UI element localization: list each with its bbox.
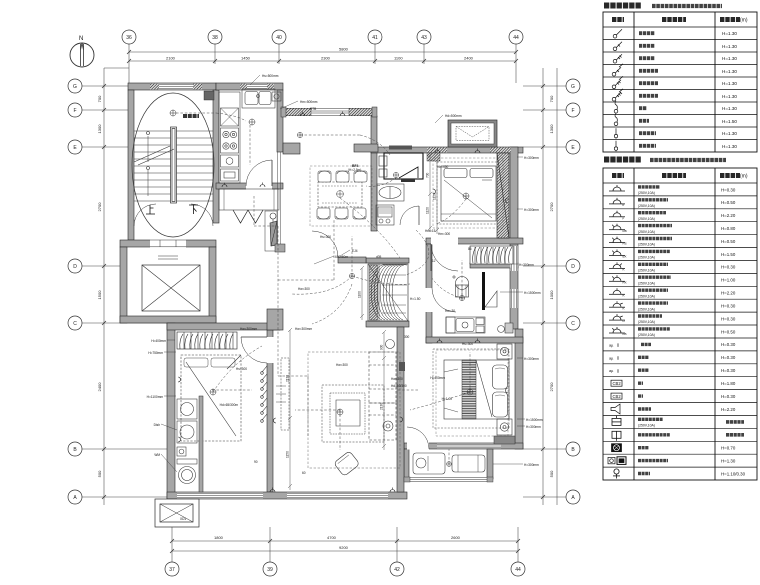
svg-text:500: 500 <box>97 470 102 477</box>
svg-text:H=1.50: H=1.50 <box>410 297 421 301</box>
ceiling lamp bath2 <box>459 295 464 300</box>
legend2 row 10 <box>609 301 625 307</box>
legend2 title <box>604 157 641 163</box>
legend1 row 1 <box>613 29 622 38</box>
svg-text:H=1.30: H=1.30 <box>722 44 737 49</box>
legend2 row 19 <box>612 416 621 426</box>
wall stair-kitchen divider <box>213 90 219 223</box>
bottom dimension lines <box>172 527 518 562</box>
svg-text:1120: 1120 <box>433 193 437 200</box>
legend1 row 10 <box>614 141 617 151</box>
svg-text:39: 39 <box>267 567 273 573</box>
svg-text:42: 42 <box>394 567 400 573</box>
master bed <box>433 344 512 435</box>
kitchen counter <box>219 89 281 183</box>
wall right outer upper <box>510 147 518 329</box>
door arc hall-dining <box>312 231 338 257</box>
svg-text:2400: 2400 <box>97 382 102 392</box>
svg-text:RX: RX <box>623 280 627 284</box>
svg-text:41: 41 <box>372 35 378 41</box>
svg-text:1500: 1500 <box>97 290 102 300</box>
svg-text:H=1.00: H=1.00 <box>442 397 453 401</box>
wall bedroom2 bottom <box>426 238 523 244</box>
legend1 row 6 <box>612 89 623 101</box>
svg-text:(250V,10A): (250V,10A) <box>638 333 655 337</box>
svg-text:Hs=300: Hs=300 <box>236 367 247 371</box>
svg-text:Hs=300: Hs=300 <box>320 235 331 239</box>
legend2 row 3 <box>609 211 625 217</box>
svg-text:(250V,10A): (250V,10A) <box>638 307 655 311</box>
svg-text:2400: 2400 <box>464 56 474 61</box>
living coffee table <box>336 400 360 426</box>
right dimension lines <box>523 68 566 505</box>
master nightstands <box>497 344 512 359</box>
svg-text:H=1.10/0.30: H=1.10/0.30 <box>721 471 746 476</box>
interior dim chain hall <box>288 328 292 490</box>
bottom grid bubbles <box>165 562 525 576</box>
svg-text:36: 36 <box>126 35 132 41</box>
glyph up <box>146 205 155 214</box>
legend table 2 electrical <box>603 160 757 481</box>
window hatch bedroom2 top wall <box>427 148 447 153</box>
ceiling lamp kitchen <box>249 119 255 125</box>
legend2 row 8 <box>609 275 625 281</box>
svg-text:KB: KB <box>623 332 627 336</box>
svg-text:H=1.30: H=1.30 <box>722 94 737 99</box>
svg-text:G: G <box>571 84 575 90</box>
svg-text:Hm=300: Hm=300 <box>438 232 450 236</box>
stair center rail <box>171 127 177 203</box>
svg-text:500: 500 <box>549 470 554 477</box>
legend1 row 2 <box>613 42 622 51</box>
svg-text:1300: 1300 <box>97 124 102 134</box>
svg-text:H=0.30: H=0.30 <box>721 394 736 399</box>
svg-text:(250V,10A): (250V,10A) <box>638 230 655 234</box>
ceiling lamp bedroom3 <box>210 389 216 395</box>
svg-text:Hw=30: Hw=30 <box>445 309 455 313</box>
svg-text:900: 900 <box>380 344 384 350</box>
ceiling lamp bedroom2 <box>463 193 469 199</box>
top grid bubbles <box>122 30 523 44</box>
svg-text:4700: 4700 <box>327 535 337 540</box>
wall elevator right <box>209 247 216 323</box>
ceiling lamp stair <box>170 110 176 116</box>
living wall panel <box>399 362 405 371</box>
bath1 shower room <box>384 153 423 179</box>
svg-text:H=0.70: H=0.70 <box>721 446 736 451</box>
svg-text:C: C <box>571 321 575 327</box>
living tv cabinet <box>281 358 289 430</box>
legend table 1 switches <box>603 6 757 153</box>
right grid bubbles <box>566 79 580 504</box>
wall top right horizontal <box>371 147 523 153</box>
svg-text:H=1100mm: H=1100mm <box>147 395 164 399</box>
door gap bedroom3 <box>267 337 274 363</box>
legend1 row 4 <box>612 64 623 76</box>
bath3 washbasin <box>177 421 197 443</box>
master dresser <box>494 436 515 444</box>
svg-text:BX: BX <box>623 255 627 259</box>
svg-text:2700: 2700 <box>97 202 102 212</box>
living side table top <box>386 340 395 349</box>
svg-text:H=0.30: H=0.30 <box>721 355 736 360</box>
svg-text:H=0.80: H=0.80 <box>721 226 736 231</box>
wall bath2 bottom / master top <box>426 337 523 343</box>
svg-text:H=1.30: H=1.30 <box>721 458 736 463</box>
svg-text:Hw=300mm: Hw=300mm <box>240 327 257 331</box>
bedroom3 wardrobe <box>177 332 237 349</box>
svg-text:G: G <box>73 84 77 90</box>
svg-text:H=2.20: H=2.20 <box>721 291 736 296</box>
living rug <box>322 385 384 442</box>
svg-text:(H=2.5m): (H=2.5m) <box>348 168 361 172</box>
svg-text:H=300mm: H=300mm <box>524 208 539 212</box>
svg-text:(250V,10A): (250V,10A) <box>638 320 655 324</box>
legend2 row 12 <box>609 327 625 333</box>
svg-text:H=1.50: H=1.50 <box>721 252 736 257</box>
wall balcony right <box>487 449 493 479</box>
entry side wall lines <box>278 152 281 244</box>
wall kitchen right <box>277 90 283 152</box>
svg-text:5800: 5800 <box>339 47 349 52</box>
leader labels top area <box>262 74 462 233</box>
svg-text:Hw=300mm: Hw=300mm <box>295 327 312 331</box>
svg-text:H=1.30: H=1.30 <box>722 144 737 149</box>
corridor window wall <box>281 107 377 117</box>
window bottom wall at A <box>177 493 388 499</box>
svg-text:H=0.30: H=0.30 <box>721 187 736 192</box>
window master bottom <box>437 444 501 449</box>
svg-text:1000: 1000 <box>549 290 554 300</box>
legend2 row 20 <box>612 431 621 441</box>
svg-text:H=0.50: H=0.50 <box>721 200 736 205</box>
socket symbols along walls <box>178 112 508 493</box>
legend1 frame <box>603 12 757 152</box>
svg-text:H=300mm: H=300mm <box>524 357 539 361</box>
bath1 door arc <box>400 206 419 225</box>
svg-text:1150: 1150 <box>286 451 290 458</box>
wall balcony left <box>404 449 409 478</box>
svg-text:2700: 2700 <box>549 202 554 212</box>
legend1 row 5 <box>612 76 623 88</box>
svg-text:(250V,10A): (250V,10A) <box>638 191 655 195</box>
svg-text:2700: 2700 <box>549 382 554 392</box>
kitchen fridge <box>221 108 239 126</box>
svg-text:CB2: CB2 <box>613 381 622 386</box>
window right wall upper <box>511 246 518 308</box>
legend2 frame <box>603 168 757 480</box>
svg-text:H=0.50: H=0.50 <box>721 329 736 334</box>
door gap elevator <box>150 240 186 248</box>
wall entry closet bottom <box>366 321 409 327</box>
stair break line <box>134 132 174 197</box>
svg-text:Hm=500mm: Hm=500mm <box>300 100 318 104</box>
entry closet interior <box>368 264 408 321</box>
kitchen sink <box>242 89 275 108</box>
legend2 row 9 <box>609 288 625 294</box>
legend1 row 9 <box>614 128 617 139</box>
bedroom2 corner hatch <box>427 153 440 161</box>
svg-text:D: D <box>73 264 77 270</box>
svg-text:Hs=500mm: Hs=500mm <box>262 74 279 78</box>
svg-text:H=300mm: H=300mm <box>519 263 534 267</box>
svg-text:Dish: Dish <box>154 423 161 427</box>
entry door leaf <box>265 211 277 251</box>
svg-text:H=300mm: H=300mm <box>524 463 539 467</box>
wall master right outer <box>515 329 523 449</box>
svg-text:H=400mm: H=400mm <box>151 339 166 343</box>
svg-text:H=1.80: H=1.80 <box>721 381 736 386</box>
legend2 row 7 <box>609 262 625 268</box>
svg-text:Hd=65/300m: Hd=65/300m <box>220 403 239 407</box>
svg-text:H=1500mm: H=1500mm <box>526 418 543 422</box>
duct block stair top <box>204 91 214 100</box>
label EJ leader <box>314 250 350 264</box>
dining dashed ceiling <box>310 166 372 226</box>
interior dim chain bedroom2 <box>435 158 439 234</box>
leader labels right side <box>430 156 543 467</box>
wall bedroom3 top <box>167 323 280 330</box>
svg-text:37: 37 <box>169 567 175 573</box>
svg-text:300: 300 <box>404 335 410 339</box>
legend2 row 23 <box>613 469 620 479</box>
bedroom2 closet hatch <box>470 246 513 264</box>
svg-text:H=1.30: H=1.30 <box>722 69 737 74</box>
wall stair top <box>128 83 216 90</box>
bath1 washbasin <box>376 184 404 225</box>
stair treads <box>134 131 213 201</box>
svg-text:60: 60 <box>302 471 306 475</box>
svg-text:Hw=300: Hw=300 <box>391 377 403 381</box>
window gap stair top <box>150 84 202 90</box>
bath2 stall toilet <box>446 317 513 333</box>
svg-text:d05: d05 <box>376 255 382 259</box>
living sofa dashed <box>369 352 396 440</box>
legend2 row 17 <box>611 393 622 399</box>
legend1 row 8 <box>614 113 618 125</box>
svg-text:1450: 1450 <box>241 56 251 61</box>
wiring dashed trunks <box>176 113 470 450</box>
bath1 washer <box>376 205 394 225</box>
legend2 row 11 <box>609 314 625 320</box>
ceiling lamp master <box>467 389 473 395</box>
top dimension lines <box>129 44 516 83</box>
svg-text:F: F <box>73 108 76 114</box>
svg-text:2130: 2130 <box>286 375 290 382</box>
bath3 toilet <box>177 459 197 464</box>
svg-text:D: D <box>571 264 575 270</box>
wall elevator left <box>120 247 127 323</box>
stair oval wall <box>132 93 214 237</box>
ceiling lamp bath1 <box>393 172 398 177</box>
label pavilae <box>183 114 199 118</box>
svg-text:9200: 9200 <box>339 545 349 550</box>
wall entry closet top <box>366 258 409 263</box>
bath2 washbasin counter <box>446 317 485 333</box>
svg-text:1120: 1120 <box>426 207 430 214</box>
svg-text:H=2.20: H=2.20 <box>721 407 736 412</box>
glyph down <box>189 205 198 214</box>
svg-text:(250V,10A): (250V,10A) <box>638 217 655 221</box>
svg-text:H=2.20: H=2.20 <box>721 213 736 218</box>
bedroom2 wardrobe <box>497 153 509 238</box>
svg-text:1800: 1800 <box>214 535 224 540</box>
left grid bubbles <box>68 79 82 504</box>
svg-text:Hd=60/300: Hd=60/300 <box>391 384 407 388</box>
bedroom2 bed <box>437 162 500 224</box>
svg-text:H=1.50: H=1.50 <box>722 119 737 124</box>
kitchen stove <box>221 128 239 153</box>
svg-text:Hd=500mm: Hd=500mm <box>445 114 462 118</box>
interior dim chain bath1 <box>428 153 432 232</box>
svg-text:H=1.30: H=1.30 <box>722 56 737 61</box>
wall stub right of kitchen <box>283 143 300 154</box>
svg-text:RB: RB <box>623 229 627 233</box>
legend2 row 1 <box>609 185 625 191</box>
svg-text:H=300mm: H=300mm <box>524 156 539 160</box>
legend2 row 22 <box>608 457 626 465</box>
svg-text:(250V,10A): (250V,10A) <box>638 281 655 285</box>
bath3 divider <box>199 396 203 492</box>
balcony railing <box>404 477 493 482</box>
wall bottom at grid A <box>167 492 407 499</box>
svg-text:K: K <box>623 293 625 297</box>
door gap bath2 <box>426 288 433 312</box>
legend1 row 7 <box>614 101 618 113</box>
svg-text:H=0.30: H=0.30 <box>721 342 736 347</box>
dining chairs <box>317 171 367 219</box>
ceiling lamp balcony <box>447 462 452 467</box>
wall kitchen top <box>216 83 283 90</box>
leader labels left side <box>147 339 167 457</box>
legend2 row 5 <box>609 237 625 243</box>
door gap bedroom2 <box>431 238 458 245</box>
svg-text:650x50m: 650x50m <box>335 255 348 259</box>
svg-text:H=0.50: H=0.50 <box>721 239 736 244</box>
svg-text:700: 700 <box>97 95 102 102</box>
legend2 row 18 <box>611 404 620 414</box>
legend1 title <box>604 3 641 9</box>
legend2 row 6 <box>609 250 625 256</box>
entry closet folding doors <box>233 210 263 223</box>
svg-text:K: K <box>623 268 625 272</box>
door gap kitchen bottom <box>246 183 272 190</box>
svg-text:H=1.30: H=1.30 <box>722 131 737 136</box>
dining ceiling fan <box>337 191 344 198</box>
ceiling lamp corridor <box>297 132 302 137</box>
legend1 header <box>612 17 624 22</box>
kitchen door arc <box>246 160 272 186</box>
svg-text:38: 38 <box>212 35 218 41</box>
svg-text:STB: STB <box>310 107 316 111</box>
svg-text:K: K <box>623 306 625 310</box>
svg-text:(m): (m) <box>740 18 748 24</box>
svg-text:Hw=300: Hw=300 <box>298 287 310 291</box>
wall elevator top <box>120 240 216 247</box>
entry cabinet <box>219 189 279 210</box>
svg-text:44: 44 <box>515 567 521 573</box>
legend1 row 3 <box>613 54 622 63</box>
legend2 header <box>612 173 624 178</box>
svg-text:43: 43 <box>421 35 427 41</box>
master dashed ceiling <box>436 350 508 436</box>
bedroom2 dashed ceiling <box>433 158 503 228</box>
svg-text:(250V,10A): (250V,10A) <box>638 204 655 208</box>
bath2 stall partition <box>482 272 485 310</box>
north arrow <box>70 43 94 67</box>
wall left outer lower <box>167 323 175 499</box>
svg-text:H=1.30: H=1.30 <box>722 31 737 36</box>
balcony loungers <box>413 453 485 474</box>
AC platform <box>448 120 497 147</box>
svg-text:H=300mm: H=300mm <box>526 425 541 429</box>
bath2 stall door wedge <box>485 291 497 307</box>
bath2 water heater <box>452 275 469 297</box>
bath1 small box left <box>379 156 387 166</box>
bath1 divider shelf <box>401 179 415 182</box>
svg-text:2600: 2600 <box>451 535 461 540</box>
svg-text:2130: 2130 <box>380 403 384 410</box>
svg-text:H=1500mm: H=1500mm <box>524 291 541 295</box>
svg-text:700: 700 <box>549 95 554 102</box>
svg-text:40: 40 <box>276 35 282 41</box>
wall stub left of corridor vertical <box>354 144 378 152</box>
shaft bottom-left <box>155 499 199 527</box>
wall master bottom <box>404 443 523 449</box>
svg-text:1300: 1300 <box>549 124 554 134</box>
svg-text:(250V,10A): (250V,10A) <box>638 256 655 260</box>
svg-text:(250V,10A): (250V,10A) <box>638 243 655 247</box>
svg-text:H=750mm: H=750mm <box>148 351 163 355</box>
window gap kitchen top <box>240 84 274 90</box>
bath1 shower window band <box>389 146 412 150</box>
left dimension line <box>82 68 167 505</box>
svg-text:700: 700 <box>426 172 430 178</box>
switch cluster hallway <box>261 366 286 422</box>
svg-text:H=1.00: H=1.00 <box>721 278 736 283</box>
svg-text:H=0.30: H=0.30 <box>721 304 736 309</box>
door gap balcony <box>407 443 429 450</box>
bedroom2 door arc <box>431 244 458 271</box>
wall corner column corridor <box>267 309 283 330</box>
svg-text:44: 44 <box>513 35 519 41</box>
kitchen corner box <box>272 92 281 101</box>
svg-text:1100: 1100 <box>358 291 362 298</box>
living room dashed outline <box>308 352 400 468</box>
elevator car <box>142 256 200 311</box>
svg-text:N: N <box>79 36 83 42</box>
svg-text:2300: 2300 <box>321 56 331 61</box>
bedroom3 bed <box>181 355 241 441</box>
wall stair left <box>128 90 134 240</box>
wall bath2 left <box>426 244 432 343</box>
svg-text:EJ4: EJ4 <box>352 249 358 253</box>
kitchen cabinet boxes <box>221 155 239 167</box>
svg-text:Hb=450: Hb=450 <box>437 165 448 169</box>
ceiling lamp living <box>337 409 343 415</box>
svg-text:2100: 2100 <box>166 56 176 61</box>
interior dim closet <box>360 266 364 320</box>
svg-text:C: C <box>73 321 77 327</box>
legend2 row 16 <box>611 380 622 386</box>
svg-text:Hm=15: Hm=15 <box>425 229 436 233</box>
svg-text:90: 90 <box>254 460 258 464</box>
svg-text:H=1.30: H=1.30 <box>722 81 737 86</box>
svg-text:H=0.30: H=0.30 <box>721 316 736 321</box>
svg-text:H=0.30: H=0.30 <box>721 265 736 270</box>
landing door arcs <box>134 204 156 226</box>
svg-text:CB2: CB2 <box>613 394 622 399</box>
